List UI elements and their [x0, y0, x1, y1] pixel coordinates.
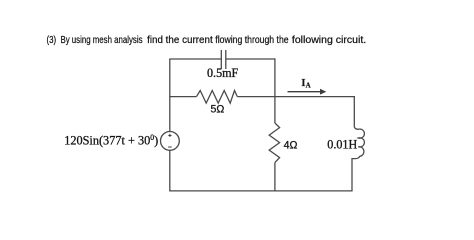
wire: left vertical upper segment: [169, 59, 171, 132]
current arrow IA: [288, 89, 327, 95]
resistor R2 value 4ohm: [284, 139, 298, 151]
wire: middle branch vertical lower: [274, 163, 276, 192]
source V1 plus sign: [168, 134, 171, 137]
wire: bottom horizontal: [169, 190, 352, 192]
svg-text:4Ω: 4Ω: [284, 139, 298, 151]
wire: top horizontal left of capacitor: [169, 58, 221, 60]
svg-text:find the current: find the current: [147, 35, 213, 46]
problem statement text: [47, 35, 367, 46]
wire: middle horizontal right of resistor: [237, 96, 355, 98]
capacitor C1 left plate: [220, 50, 222, 69]
svg-text:(3) By using mesh analysis: (3) By using mesh analysis: [47, 35, 143, 46]
svg-text:0.5mF: 0.5mF: [207, 66, 239, 80]
capacitor C1 right plate: [225, 50, 227, 69]
svg-text:following circuit.: following circuit.: [292, 35, 366, 46]
svg-text:0.01H: 0.01H: [327, 138, 357, 152]
inductor L1 coil: [352, 126, 364, 191]
wire: left vertical lower segment: [169, 150, 171, 191]
resistor R1 value 5ohm: [211, 104, 225, 116]
wire: right branch vertical upper: [353, 96, 355, 126]
resistor R2 zigzag 4ohm vertical: [269, 123, 279, 163]
source V1 value label 120Sin(377t+30^0): [64, 132, 158, 147]
wire: middle horizontal left of resistor: [169, 96, 196, 98]
inductor L1 value 0.01H: [327, 138, 357, 152]
source V1 circle: [161, 132, 180, 151]
resistor R1 zigzag 5ohm: [197, 91, 238, 104]
wire: middle branch vertical upper: [274, 58, 276, 123]
source V1 minus sign: [168, 146, 172, 148]
svg-text:IA: IA: [301, 77, 310, 90]
svg-text:120Sin(377t + 300): 120Sin(377t + 300): [64, 132, 158, 147]
current label I_A: [301, 77, 310, 90]
svg-text:flowing through the: flowing through the: [215, 35, 289, 46]
capacitor C1 value 0.5mF: [207, 66, 239, 80]
wire: top horizontal right of capacitor: [226, 58, 276, 60]
svg-text:5Ω: 5Ω: [211, 104, 225, 116]
